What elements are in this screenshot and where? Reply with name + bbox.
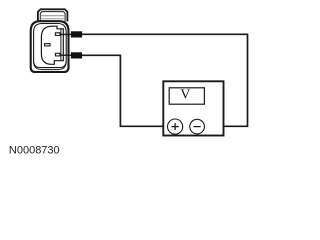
svg-text:V: V	[180, 87, 190, 102]
svg-text:N0008730: N0008730	[9, 145, 60, 157]
